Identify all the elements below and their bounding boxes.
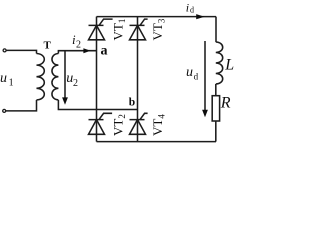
wire resistor to bottom rail <box>215 121 217 142</box>
thyristor VT4 <box>130 113 148 134</box>
wire secondary top to node a <box>58 51 96 54</box>
wire primary bottom <box>6 100 37 111</box>
thyristor VT2 <box>89 113 113 134</box>
resistor R <box>212 96 219 121</box>
svg-text:1: 1 <box>9 78 14 89</box>
terminal top-left <box>3 49 6 52</box>
svg-text:T: T <box>44 40 52 52</box>
svg-text:i: i <box>186 1 189 15</box>
wire right bridge column <box>137 17 139 142</box>
svg-text:u: u <box>0 71 7 86</box>
wire inductor to resistor <box>215 84 217 96</box>
svg-text:VT2: VT2 <box>110 114 127 136</box>
svg-text:VT3: VT3 <box>150 18 167 40</box>
svg-text:d: d <box>194 72 199 82</box>
thyristor VT3 <box>130 19 148 40</box>
transformer T secondary winding <box>52 54 58 100</box>
wire right rail with inductor and resistor <box>215 17 217 42</box>
svg-text:L: L <box>224 56 234 73</box>
wire bottom rail <box>97 141 217 143</box>
wire secondary bottom to node b <box>58 100 137 110</box>
svg-text:VT4: VT4 <box>150 114 167 136</box>
svg-text:R: R <box>220 95 231 112</box>
wire top rail <box>97 16 217 18</box>
arrowhead id <box>196 14 204 19</box>
inductor L <box>216 42 223 84</box>
svg-text:d: d <box>190 6 194 15</box>
arrowhead i2 <box>83 48 90 53</box>
wire left bridge column <box>96 17 98 142</box>
svg-text:VT1: VT1 <box>110 19 127 41</box>
svg-text:2: 2 <box>76 40 81 51</box>
svg-text:b: b <box>129 97 135 109</box>
arrow u2 (secondary voltage) <box>64 52 66 99</box>
thyristor VT1 <box>89 19 113 40</box>
wire primary top <box>7 50 37 53</box>
arrow ud (output voltage) <box>204 41 206 111</box>
transformer T primary winding <box>37 54 45 100</box>
svg-text:a: a <box>101 44 108 59</box>
terminal bottom-left <box>3 109 6 112</box>
svg-text:u: u <box>186 65 193 80</box>
svg-text:2: 2 <box>73 78 78 89</box>
arrowhead ud <box>202 110 208 117</box>
arrowhead u2 <box>62 97 68 104</box>
